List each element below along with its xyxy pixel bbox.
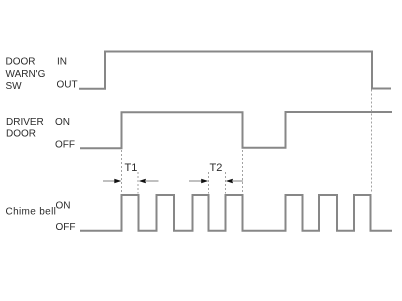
svg-text:T1: T1 — [125, 162, 138, 174]
label DOOR WARN'G SW — [6, 56, 46, 92]
svg-text:WARN'G: WARN'G — [6, 69, 46, 80]
dashed line at driver-door fall / chime pulse4 fall (x=242.5) — [242, 150, 244, 194]
T1 right arrow — [139, 179, 159, 184]
dashed line at chime pulse3 fall (x=208.5) — [208, 172, 210, 194]
svg-text:ON: ON — [55, 117, 70, 128]
svg-text:DRIVER: DRIVER — [6, 117, 44, 128]
svg-text:DOOR: DOOR — [6, 129, 36, 140]
svg-text:OFF: OFF — [56, 222, 76, 233]
label DRIVER DOOR — [6, 117, 44, 140]
T2 right arrow — [226, 179, 243, 184]
svg-text:T2: T2 — [210, 162, 223, 174]
dashed line at chime pulse4 rise (x=225.5) — [225, 172, 227, 194]
svg-text:DOOR: DOOR — [6, 56, 36, 67]
svg-text:Chime bell: Chime bell — [6, 207, 57, 218]
svg-text:OUT: OUT — [57, 80, 78, 91]
waveform Chime bell — [80, 195, 392, 231]
dashed line at chime pulse1 fall (x=138) — [137, 172, 139, 194]
svg-text:SW: SW — [6, 81, 23, 92]
T2 left arrow — [189, 179, 208, 184]
svg-text:IN: IN — [57, 56, 67, 67]
T1 left arrow — [103, 179, 121, 184]
svg-text:OFF: OFF — [55, 140, 75, 151]
dashed line at driver-door rise / chime pulse1 rise (x=121.5) — [121, 150, 123, 194]
dashed line at door-warn'g fall / chime last fall (x=371.5) — [371, 90, 373, 194]
waveform DOOR WARN'G SW — [79, 52, 391, 89]
waveform DRIVER DOOR — [80, 112, 392, 148]
svg-text:ON: ON — [56, 201, 71, 212]
